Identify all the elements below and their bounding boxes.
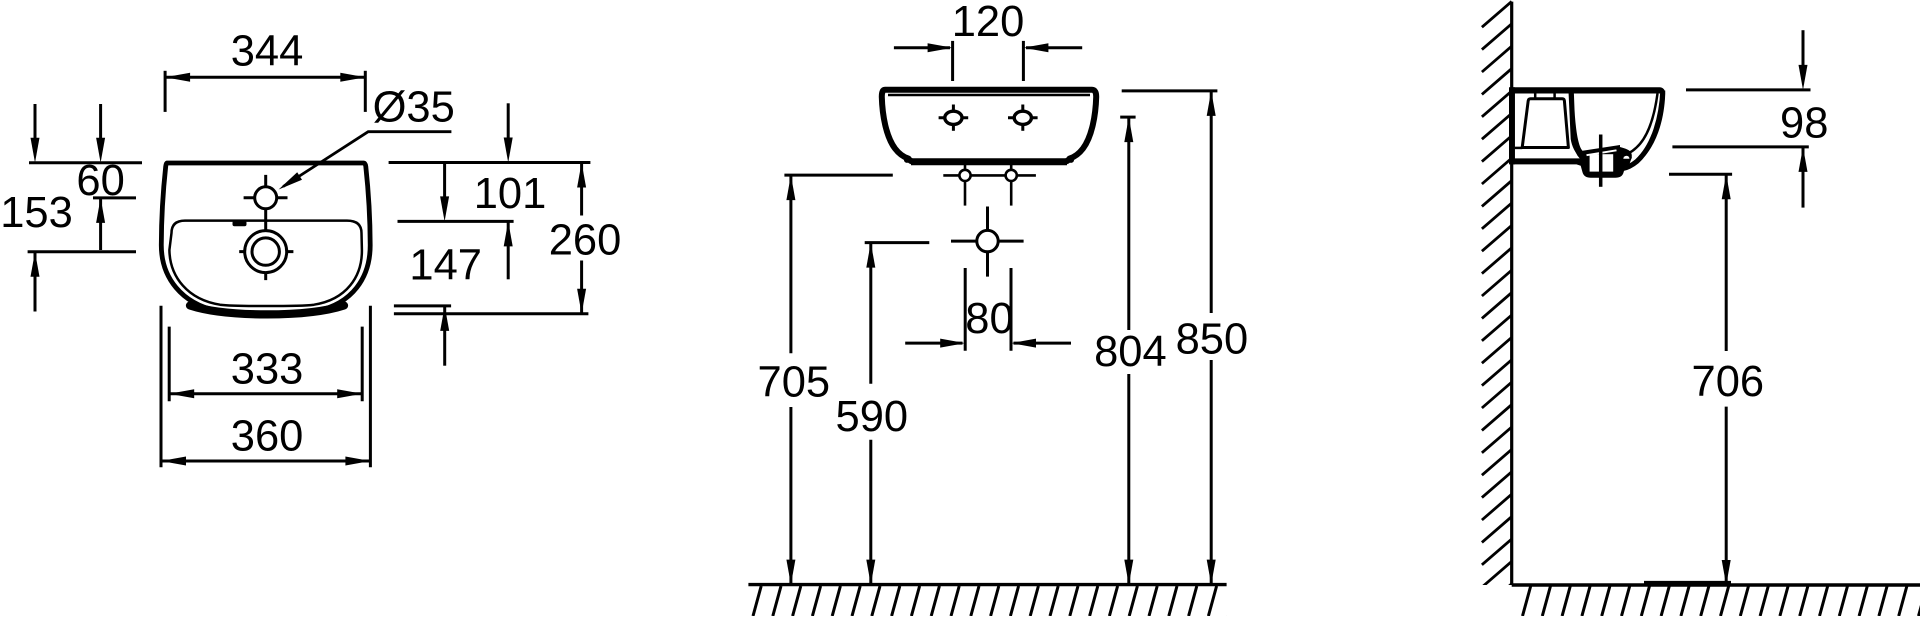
svg-text:804: 804	[1094, 328, 1167, 376]
svg-text:153: 153	[0, 189, 73, 237]
svg-text:344: 344	[231, 28, 304, 76]
svg-text:80: 80	[965, 295, 1013, 343]
svg-text:120: 120	[952, 0, 1025, 46]
svg-text:333: 333	[231, 345, 304, 393]
svg-text:98: 98	[1780, 100, 1828, 148]
svg-text:590: 590	[836, 393, 909, 441]
svg-text:147: 147	[409, 241, 482, 289]
svg-text:360: 360	[231, 413, 304, 461]
svg-text:705: 705	[758, 359, 831, 407]
svg-text:60: 60	[76, 157, 124, 205]
svg-text:850: 850	[1176, 316, 1249, 364]
svg-text:Ø35: Ø35	[373, 83, 455, 131]
svg-text:260: 260	[549, 216, 622, 264]
svg-text:101: 101	[474, 170, 547, 218]
svg-text:706: 706	[1692, 358, 1765, 406]
